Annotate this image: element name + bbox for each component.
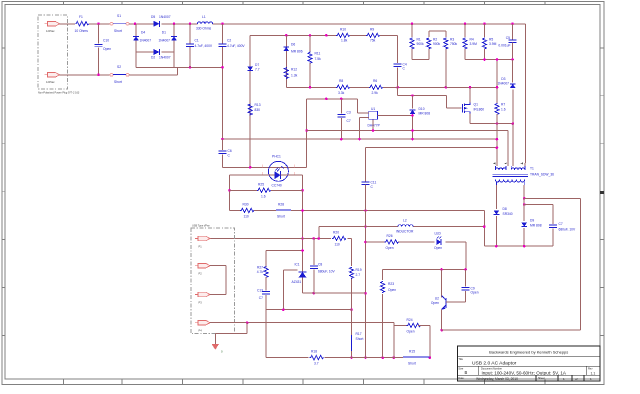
resistor R18 3.7 [310, 349, 324, 365]
svg-text:C5: C5 [506, 36, 510, 40]
svg-text:S1: S1 [117, 14, 121, 18]
wire H2 [307, 129, 508, 163]
svg-text:Title: Title [458, 358, 463, 361]
wire R2 R3 top link [429, 30, 446, 32]
svg-text:Backwards Engineered by Kenne: Backwards Engineered by Kenneth Schepps [489, 350, 568, 355]
svg-text:R10: R10 [340, 27, 346, 31]
svg-text:SR340: SR340 [503, 212, 513, 216]
capacitor C3 [337, 99, 350, 139]
svg-text:830: 830 [255, 108, 261, 112]
svg-text:Wednesday, March 03, 2010: Wednesday, March 03, 2010 [476, 377, 518, 381]
svg-text:900k: 900k [433, 42, 441, 46]
resistor R19 2.7 [349, 239, 361, 310]
ground 0 [212, 323, 248, 354]
diode D3 1N4007 [497, 60, 515, 124]
svg-text:P2: P2 [199, 272, 203, 276]
svg-text:Short: Short [277, 215, 285, 219]
svg-text:D2: D2 [151, 56, 155, 60]
svg-text:7.7: 7.7 [255, 68, 260, 72]
wire R1 R2 bottom link [412, 59, 429, 61]
diode D6 MR806 [283, 43, 302, 54]
usb connector dashed box [191, 225, 235, 334]
svg-text:C11: C11 [371, 181, 377, 185]
svg-text:D7: D7 [255, 63, 259, 67]
zener D7 [247, 63, 259, 72]
wire rail end to transformer [525, 24, 527, 163]
wire S2 to bridge bottom [129, 67, 178, 75]
svg-text:C13: C13 [257, 289, 263, 293]
wire U2 top row [383, 268, 467, 271]
resistor R2 900k [427, 31, 441, 59]
capacitor C9 Open [462, 270, 479, 303]
resistor R30 110 [240, 202, 254, 218]
svg-text:IRL860: IRL860 [474, 108, 485, 112]
svg-text:D9: D9 [530, 219, 534, 223]
resistor R20 110 [332, 230, 346, 246]
resistor R8 3.3k [336, 79, 350, 95]
connector J1 line terminal [45, 22, 60, 33]
svg-text:R30: R30 [243, 202, 249, 206]
wire top rail bridge to C1 C2 L1 [173, 22, 526, 25]
wire U1 pin3 [372, 119, 374, 130]
svg-text:Non-Polarized Power Plug 977-2: Non-Polarized Power Plug 977-2 163 [38, 92, 80, 95]
wire R27 branch [266, 249, 304, 252]
ic U1 DA077P [368, 107, 381, 128]
svg-text:3.7: 3.7 [314, 361, 319, 365]
svg-text:R11: R11 [315, 52, 321, 56]
pin P2 [195, 264, 210, 276]
svg-text:MR 806: MR 806 [291, 50, 303, 54]
svg-text:Short: Short [114, 29, 122, 33]
resistor R7 1.6 [495, 58, 506, 163]
svg-text:330 Ohms: 330 Ohms [196, 27, 212, 31]
svg-text:D8: D8 [503, 207, 507, 211]
capacitor C5 0.001uF [498, 24, 516, 60]
svg-text:R24: R24 [407, 318, 413, 322]
svg-text:U2: U2 [435, 297, 439, 301]
wire C7 stub [524, 204, 553, 206]
svg-text:Open: Open [471, 291, 479, 295]
svg-text:110: 110 [244, 215, 249, 219]
svg-text:Rev: Rev [588, 367, 593, 370]
svg-text:TRAN_SDW_36: TRAN_SDW_36 [530, 173, 554, 177]
wire U1 pin2 [360, 118, 369, 140]
svg-text:Date:: Date: [458, 377, 464, 380]
svg-text:INDUCTOR: INDUCTOR [396, 230, 414, 234]
svg-text:3.9M: 3.9M [470, 42, 478, 46]
svg-text:C2: C2 [227, 39, 231, 43]
svg-text:Open: Open [407, 330, 415, 334]
wire vbus row [210, 237, 352, 240]
svg-text:D3: D3 [501, 77, 505, 81]
svg-text:R15: R15 [409, 349, 415, 353]
svg-text:1N4007: 1N4007 [497, 82, 509, 86]
inductor L1 [196, 15, 213, 30]
svg-text:of: of [575, 377, 578, 381]
resistor R9 75k [366, 27, 380, 42]
transformer T1 TRAN_SDW_36 [493, 163, 555, 186]
fuse F1 [75, 15, 89, 33]
inductor L2 [396, 218, 414, 233]
resistor R27 4.7k [257, 251, 268, 291]
svg-text:1N4007: 1N4007 [158, 39, 170, 43]
svg-text:2.7: 2.7 [356, 273, 361, 277]
svg-text:4.7k: 4.7k [257, 270, 264, 274]
svg-text:120Vac: 120Vac [46, 80, 55, 84]
svg-text:Open: Open [431, 301, 439, 305]
resistor R26 Open [385, 234, 399, 250]
svg-text:Open: Open [386, 246, 394, 250]
wire bottom rail plug to S2 [60, 74, 111, 77]
svg-text:DA077P: DA077P [368, 124, 381, 128]
resistor R1 900k [410, 24, 424, 60]
svg-text:R8: R8 [339, 79, 343, 83]
svg-text:C7: C7 [347, 119, 351, 123]
resistor R28 Short [276, 202, 291, 218]
svg-text:3.3k: 3.3k [338, 91, 345, 95]
wire led row [366, 242, 467, 270]
svg-text:Q1: Q1 [474, 103, 479, 107]
svg-text:7.5k: 7.5k [315, 57, 322, 61]
svg-text:4.7uF, 400V: 4.7uF, 400V [195, 44, 213, 48]
svg-text:MR 808: MR 808 [530, 224, 542, 228]
resistor R15 Short [403, 349, 430, 365]
svg-text:Size: Size [458, 367, 463, 370]
wire feedback row [230, 209, 485, 246]
svg-text:1.6: 1.6 [501, 108, 506, 112]
svg-text:3.9M: 3.9M [489, 42, 497, 46]
diode D9 MR808 [521, 219, 541, 247]
resistor R12 1.3k [284, 67, 297, 79]
wire H4 [366, 146, 499, 182]
svg-text:1.6: 1.6 [261, 194, 266, 198]
mains connector dashed box [38, 15, 80, 95]
svg-text:R28: R28 [278, 202, 284, 206]
diode D1 1N4007 [158, 31, 176, 43]
svg-text:AZ431: AZ431 [292, 280, 302, 284]
svg-text:C8: C8 [318, 263, 322, 267]
diode D8 SR340 [494, 207, 513, 246]
svg-text:D4: D4 [141, 31, 145, 35]
svg-text:680uF, 10V: 680uF, 10V [559, 228, 576, 232]
wire opto right column [301, 175, 304, 272]
svg-text:Sheet: Sheet [538, 377, 545, 380]
svg-text:D5: D5 [151, 15, 155, 19]
svg-text:D6: D6 [291, 43, 295, 47]
svg-text:0.001uF: 0.001uF [498, 44, 510, 48]
svg-text:R2: R2 [433, 38, 437, 42]
svg-text:1N4007: 1N4007 [159, 15, 171, 19]
svg-text:1.1: 1.1 [591, 371, 596, 375]
resistor R25 1.6 [230, 182, 303, 198]
wire bus 87 [286, 86, 498, 89]
svg-text:1N4007: 1N4007 [140, 39, 152, 43]
svg-text:S2: S2 [117, 65, 121, 69]
wire D7 column [249, 35, 251, 167]
svg-text:USB 2.0 AC Adaptor: USB 2.0 AC Adaptor [472, 361, 517, 367]
svg-text:Open: Open [388, 288, 396, 292]
svg-text:R12: R12 [291, 68, 297, 72]
svg-text:R19: R19 [356, 268, 362, 272]
svg-text:P4: P4 [199, 329, 203, 333]
svg-text:L2: L2 [403, 218, 407, 222]
pin P1 [195, 236, 210, 248]
svg-text:680uF, 10V: 680uF, 10V [318, 270, 335, 274]
svg-text:R3: R3 [450, 38, 454, 42]
svg-text:USB Type t/Pwr: USB Type t/Pwr [192, 225, 210, 228]
wire secondary right drop [523, 185, 526, 221]
wire opto led left drop [228, 175, 231, 210]
capacitor C2 4.7uF 400V [219, 24, 246, 139]
svg-text:Short: Short [408, 361, 416, 365]
resistor R17 Short [350, 308, 363, 359]
wire gate drive [398, 94, 462, 108]
svg-text:R4: R4 [470, 38, 474, 42]
capacitor C13 [257, 289, 270, 358]
capacitor C7 680uF 10V [549, 205, 576, 247]
svg-text:R20: R20 [333, 230, 339, 234]
svg-text:IC1: IC1 [295, 262, 300, 266]
transistor U2 Open [431, 270, 466, 310]
svg-text:110: 110 [335, 243, 340, 247]
wire top rail plug to F1 [60, 23, 76, 25]
wire U2 emitter [440, 310, 443, 332]
wire P4 row [210, 321, 394, 324]
svg-text:D1: D1 [162, 31, 166, 35]
switch S2 [110, 65, 129, 84]
svg-text:10 Ohms: 10 Ohms [75, 29, 89, 33]
resistor R5 3.9M [482, 24, 496, 60]
svg-text:R13: R13 [255, 103, 261, 107]
svg-text:R1: R1 [417, 38, 421, 42]
svg-text:P3: P3 [199, 301, 203, 305]
resistor R10 1.8k [336, 27, 350, 42]
optocoupler PHC1 CC740 [262, 155, 294, 188]
wire H1 [307, 98, 358, 101]
svg-text:R25: R25 [258, 182, 264, 186]
svg-text:1.3k: 1.3k [291, 74, 298, 78]
svg-text:C10: C10 [103, 39, 109, 43]
svg-text:Short: Short [356, 337, 364, 341]
wire bridge right vertical [173, 24, 175, 68]
wire output plus [442, 198, 581, 330]
capacitor C4 [394, 35, 407, 95]
svg-text:R23: R23 [388, 282, 394, 286]
svg-text:R5: R5 [489, 38, 493, 42]
svg-text:Open: Open [434, 246, 442, 250]
svg-text:1N4007: 1N4007 [159, 56, 171, 60]
wire D6 column [285, 35, 287, 87]
svg-text:L1: L1 [202, 15, 206, 19]
svg-text:75k: 75k [370, 38, 376, 42]
capacitor C8 680uF 10V [310, 239, 336, 295]
svg-text:R17: R17 [356, 332, 362, 336]
wire secondary left drop [495, 185, 497, 209]
svg-text:D10: D10 [419, 107, 425, 111]
diode D10 MR808 [410, 96, 431, 140]
resistor R6 2.9k [369, 79, 383, 95]
wire reg bottom row [266, 308, 351, 311]
resistor R4 3.9M [463, 24, 477, 60]
svg-text:C3: C3 [347, 111, 351, 115]
wire ref row [283, 270, 297, 310]
svg-text:F1: F1 [79, 15, 83, 19]
resistor R23 Open [381, 270, 397, 358]
capacitor C1 4.7uF 400V [186, 24, 213, 68]
title block [457, 346, 600, 381]
svg-text:1.8k: 1.8k [341, 38, 348, 42]
wire L2 row [319, 225, 486, 238]
svg-text:U1: U1 [371, 107, 375, 111]
wire opto collector row [223, 166, 307, 169]
svg-text:LED: LED [435, 232, 442, 236]
svg-text:R7: R7 [501, 103, 505, 107]
diode D2 1N4007 [151, 49, 171, 60]
svg-text:T1: T1 [530, 167, 534, 171]
svg-text:R27: R27 [257, 266, 263, 270]
diode D5 1N4007 [150, 15, 174, 27]
diode D4 1N4007 [133, 31, 151, 43]
capacitor C6 [219, 139, 232, 167]
capacitor C11 [362, 181, 377, 359]
svg-text:CC740: CC740 [272, 183, 282, 187]
transistor Q1 IRL860 [462, 87, 484, 113]
svg-text:4.7uF, 400V: 4.7uF, 400V [227, 44, 245, 48]
wire mid rail [250, 34, 397, 37]
wire IC1 anode [303, 277, 366, 293]
wire bridge left vertical [135, 24, 137, 68]
wire F1 to S1 [89, 22, 110, 25]
svg-text:900k: 900k [417, 42, 425, 46]
svg-text:C7: C7 [259, 296, 263, 300]
resistor R13 830 [248, 103, 261, 116]
wire H1 left drop [305, 99, 308, 168]
svg-text:C6: C6 [228, 149, 232, 153]
svg-text:2.9k: 2.9k [372, 91, 379, 95]
svg-text:MR 808: MR 808 [419, 112, 431, 116]
resistor R11 7.5k [308, 35, 321, 87]
svg-text:750k: 750k [450, 42, 458, 46]
wire U1 pin4 [378, 114, 413, 116]
wire U1 pin1 [358, 99, 369, 113]
wire dc bus minus [136, 66, 223, 69]
svg-text:C1: C1 [195, 39, 199, 43]
capacitor C10 [95, 24, 112, 75]
wire output ground bus [484, 245, 553, 248]
svg-text:Input: 100-240V, 50-60Hz; Outp: Input: 100-240V, 50-60Hz; Output: 5V, 1A [482, 370, 567, 375]
svg-text:120Vac: 120Vac [46, 29, 55, 33]
svg-text:PHC1: PHC1 [272, 155, 281, 159]
resistor R24 Open [393, 318, 432, 359]
wire opto led row [230, 174, 303, 176]
wire H3 [221, 138, 498, 141]
svg-text:R6: R6 [373, 79, 377, 83]
svg-text:R26: R26 [387, 234, 393, 238]
svg-text:R9: R9 [370, 27, 374, 31]
svg-text:C7: C7 [559, 222, 563, 226]
wire bottom row [266, 356, 403, 359]
svg-text:B: B [465, 370, 468, 375]
svg-text:Open: Open [103, 47, 111, 51]
svg-text:P1: P1 [199, 245, 203, 249]
resistor R3 750k [444, 31, 458, 87]
svg-text:Short: Short [114, 80, 122, 84]
svg-text:R18: R18 [311, 349, 317, 353]
led LED Open [434, 232, 442, 250]
ic IC1 431 [292, 262, 307, 283]
wire bus 59 [465, 58, 514, 61]
wire P2 P3 loop [210, 266, 226, 295]
wire Q1 source [470, 114, 514, 163]
pin P4 [195, 321, 210, 333]
switch S1 [110, 14, 129, 33]
wire bridge mid row [136, 51, 174, 53]
wire S1 to bridge [129, 22, 150, 25]
pin P3 [195, 292, 210, 304]
connector J1 neutral terminal [45, 73, 60, 84]
